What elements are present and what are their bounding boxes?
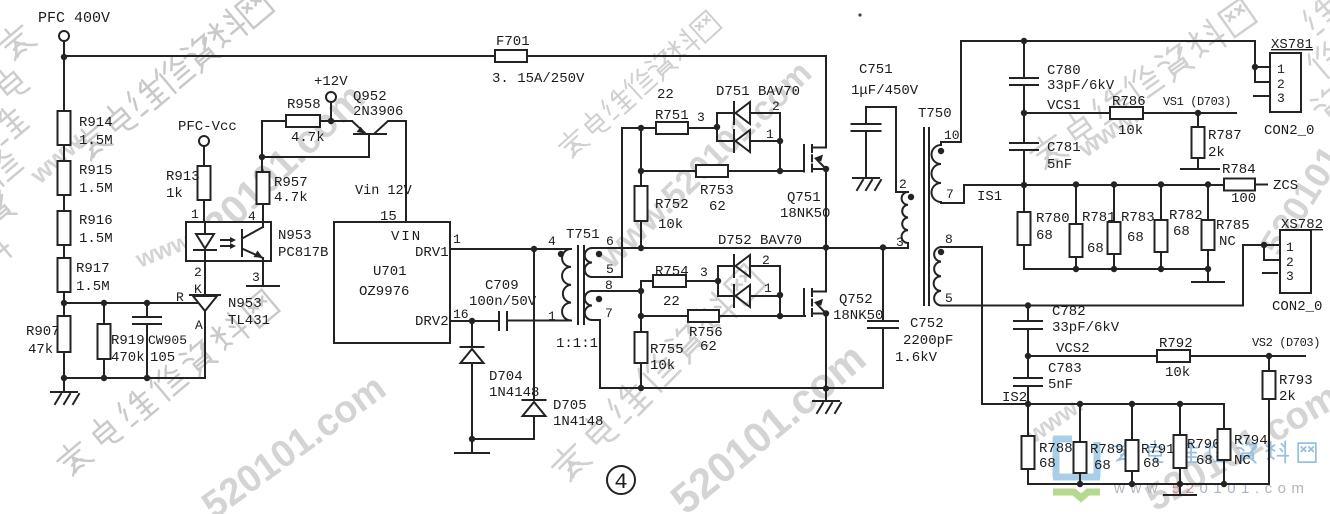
svg-text:DRV1: DRV1 <box>415 245 449 261</box>
svg-text:1: 1 <box>453 232 461 247</box>
svg-text:3: 3 <box>700 265 708 280</box>
svg-text:R755: R755 <box>650 342 684 358</box>
svg-text:33pF/6kV: 33pF/6kV <box>1052 320 1120 336</box>
svg-text:BAV70: BAV70 <box>760 233 802 249</box>
junction R789 top <box>1077 401 1083 407</box>
T750 secondary top <box>932 142 941 202</box>
svg-text:R786: R786 <box>1112 94 1146 110</box>
diode D752 upper body <box>734 255 750 277</box>
junction bus2 R785 <box>1205 266 1211 272</box>
svg-text:U701: U701 <box>373 264 407 280</box>
svg-text:3: 3 <box>1286 269 1294 284</box>
junction R753 left <box>638 168 644 174</box>
capacitor C751 plates <box>852 124 881 131</box>
T750 secondary bottom <box>934 247 941 306</box>
watermark CJK right-edge column <box>1301 0 1330 126</box>
svg-text:1: 1 <box>548 309 556 324</box>
capacitor C752 plates <box>868 321 898 328</box>
watermark CJK line center <box>547 264 766 484</box>
wire XS782 pin2 stub <box>1264 245 1280 260</box>
svg-text:5: 5 <box>606 262 614 277</box>
wire R914-R915 <box>63 145 65 161</box>
svg-text:R780: R780 <box>1036 211 1070 227</box>
junction R781 top <box>1073 181 1079 187</box>
svg-text:ZCS: ZCS <box>1273 178 1298 194</box>
svg-text:470k: 470k <box>111 350 145 366</box>
svg-text:3: 3 <box>697 110 705 125</box>
svg-text:D704: D704 <box>489 369 523 385</box>
svg-text:A: A <box>195 318 203 333</box>
svg-text:4: 4 <box>548 234 556 249</box>
svg-text:3: 3 <box>1277 91 1285 106</box>
svg-text:R752: R752 <box>655 197 689 213</box>
svg-text:C752: C752 <box>910 316 944 332</box>
resistor R790 <box>1174 404 1187 484</box>
resistor R913 <box>198 146 211 222</box>
svg-text:OZ9976: OZ9976 <box>359 284 409 300</box>
svg-text:2: 2 <box>1277 77 1285 92</box>
svg-text:2: 2 <box>772 99 780 114</box>
svg-text:R: R <box>176 290 184 305</box>
logo text CJK <box>1115 441 1316 463</box>
capacitor C783 plates <box>1014 378 1042 386</box>
wire DRV1 to T751 pin4 <box>450 248 571 250</box>
svg-text:1: 1 <box>1277 62 1285 77</box>
svg-text:1N4148: 1N4148 <box>489 385 539 401</box>
svg-text:2k: 2k <box>1279 389 1296 405</box>
junction VCS1 <box>1021 110 1027 116</box>
svg-text:1.5M: 1.5M <box>79 133 113 149</box>
wire XS781 pin3 stub <box>1254 95 1269 97</box>
resistor R754 <box>653 275 718 287</box>
junction half-bridge mid <box>823 244 829 250</box>
wire D752 lower anode <box>750 295 780 297</box>
phase dot T751 primary <box>558 251 564 257</box>
resistor R791 <box>1126 404 1139 484</box>
junction R751 left <box>638 125 644 131</box>
svg-text:XS781: XS781 <box>1271 37 1313 53</box>
svg-text:R787: R787 <box>1208 128 1242 144</box>
junction VS1 <box>1195 110 1201 116</box>
diode D705 1N4148 <box>533 249 535 400</box>
svg-text:16: 16 <box>453 307 469 322</box>
wire base <box>262 136 369 157</box>
junction gnd bus 1 <box>61 375 67 381</box>
terminal +12V <box>326 92 336 102</box>
logo book icon <box>1053 437 1100 500</box>
svg-text:PC817B: PC817B <box>278 245 328 261</box>
svg-text:IS2: IS2 <box>1002 390 1027 406</box>
svg-text:100: 100 <box>1231 191 1256 207</box>
svg-text:2k: 2k <box>1208 145 1225 161</box>
svg-text:62: 62 <box>709 199 726 215</box>
T751 core <box>578 246 584 324</box>
svg-text:105: 105 <box>150 350 175 366</box>
wire T751 pin7 down <box>592 320 883 388</box>
phase dot T750 primary <box>908 194 914 200</box>
junction bus3 R791 <box>1129 481 1135 487</box>
svg-text:1.5M: 1.5M <box>79 231 113 247</box>
svg-text:6: 6 <box>606 234 614 249</box>
junction R752 bottom <box>638 245 644 251</box>
resistor R792 <box>1157 350 1190 362</box>
transistor Q752 18NK50 <box>804 289 826 316</box>
svg-text:TL431: TL431 <box>228 313 270 329</box>
svg-text:18NK50: 18NK50 <box>780 206 830 222</box>
svg-text:68: 68 <box>1039 456 1056 472</box>
svg-text:R957: R957 <box>274 175 308 191</box>
resistor R755 <box>635 332 648 389</box>
wire IS2 bus <box>1028 404 1224 429</box>
junction D751 pin1 <box>777 138 783 144</box>
svg-text:68: 68 <box>1173 224 1190 240</box>
page number circle 4 <box>607 466 635 495</box>
svg-text:2N3906: 2N3906 <box>353 104 403 120</box>
resistor R780 <box>1018 185 1031 269</box>
resistor R782 <box>1155 185 1168 270</box>
phase dot T750 sec bottom <box>938 249 944 255</box>
svg-text:C782: C782 <box>1052 304 1086 320</box>
opto LED <box>194 222 216 261</box>
junction bus3 R790 <box>1177 481 1183 487</box>
junction VCS2 <box>1025 353 1031 359</box>
wire PFC400V terminal to bus <box>63 41 65 57</box>
svg-text:68: 68 <box>1196 453 1213 469</box>
watermark CJK line top-left <box>70 0 274 163</box>
svg-text:R790: R790 <box>1187 437 1221 453</box>
junction Q752 source <box>823 310 829 316</box>
wire R753 line <box>641 170 696 172</box>
junction R756 left <box>638 313 644 319</box>
junction D752 pin3 <box>715 278 721 284</box>
svg-text:C780: C780 <box>1047 63 1081 79</box>
svg-text:PFC 400V: PFC 400V <box>38 10 110 27</box>
resistor R907 <box>58 303 71 378</box>
svg-text:2: 2 <box>1286 255 1294 270</box>
wire Q752 drain <box>825 248 827 292</box>
svg-text:R794: R794 <box>1234 433 1268 449</box>
TL431 N953 <box>190 295 220 378</box>
capacitor C709 <box>499 312 507 330</box>
wire XS782 feed <box>1243 245 1264 306</box>
svg-text:5: 5 <box>945 291 953 306</box>
svg-text:CON2_0: CON2_0 <box>1272 299 1322 315</box>
diode D705 body <box>523 400 546 416</box>
svg-text:1k: 1k <box>166 186 183 202</box>
svg-text:3: 3 <box>252 270 260 285</box>
capacitor C780 <box>1023 41 1025 113</box>
ground clamp <box>455 439 489 453</box>
svg-text:NC: NC <box>1219 234 1236 250</box>
wire T750 pin10 to top bus <box>941 41 1255 142</box>
svg-text:2200pF: 2200pF <box>903 333 953 349</box>
svg-text:47k: 47k <box>28 342 53 358</box>
svg-text:Q751: Q751 <box>787 190 821 206</box>
svg-text:R785: R785 <box>1216 218 1250 234</box>
svg-text:DRV2: DRV2 <box>415 314 449 330</box>
diode D751 upper body <box>734 102 750 124</box>
capacitor C752 <box>882 248 884 389</box>
svg-text:68: 68 <box>1036 228 1053 244</box>
diode D752 lower <box>718 281 733 296</box>
svg-text:R782: R782 <box>1169 208 1203 224</box>
junction D751 pin3 <box>714 124 720 130</box>
svg-text:7: 7 <box>946 187 954 202</box>
wire R751-R752 link <box>640 128 642 186</box>
junction gate line 2 <box>777 313 783 319</box>
ground mid <box>813 388 841 413</box>
ground C751 <box>853 176 881 190</box>
wire XS782 pin3 stub <box>1263 272 1277 274</box>
svg-text:VS1 (D703): VS1 (D703) <box>1163 95 1231 109</box>
wire XS781 pin1 stub <box>1255 66 1270 68</box>
svg-text:1: 1 <box>1286 240 1294 255</box>
wire DRV2 to C709 <box>450 320 499 322</box>
phase dot T750 sec top <box>938 148 944 154</box>
svg-text:D752: D752 <box>718 233 752 249</box>
wire C751 to T750 pin2 <box>866 107 908 192</box>
svg-text:CW905: CW905 <box>148 333 187 348</box>
wire D704 to gnd node <box>471 363 473 439</box>
junction D705 tap <box>531 246 537 252</box>
svg-text:N953: N953 <box>278 228 312 244</box>
capacitor C781 plates <box>1010 143 1038 150</box>
svg-text:R789: R789 <box>1090 442 1124 458</box>
svg-text:C781: C781 <box>1047 140 1081 156</box>
capacitor CW905 plates <box>133 317 161 324</box>
svg-text:33pF/6kV: 33pF/6kV <box>1047 78 1115 94</box>
svg-text:68: 68 <box>1127 230 1144 246</box>
junction IS2 C783 <box>1025 401 1031 407</box>
wire VCS1 <box>1024 112 1236 114</box>
wire R957 top <box>262 168 263 172</box>
junction gate line <box>777 168 783 174</box>
wire Q751 drain <box>825 56 827 148</box>
svg-text:10k: 10k <box>1165 365 1190 381</box>
resistor R793 <box>1263 356 1276 484</box>
connector XS782 box <box>1280 230 1311 293</box>
junction pin5 C782 <box>1025 302 1031 308</box>
svg-text:R917: R917 <box>76 261 110 277</box>
svg-text:4.7k: 4.7k <box>274 190 308 206</box>
IC U701 OZ9976 box <box>334 222 450 343</box>
wire R915-R916 <box>63 195 65 211</box>
wire Q752 source down <box>825 314 827 390</box>
svg-text:4: 4 <box>614 470 627 495</box>
svg-text:1:1:1: 1:1:1 <box>556 336 598 352</box>
svg-text:62: 62 <box>700 339 717 355</box>
svg-text:68: 68 <box>1094 458 1111 474</box>
junction C780 top <box>1021 38 1027 44</box>
junction clamp gnd <box>469 436 475 442</box>
junction +12V node <box>328 118 334 124</box>
wire IS1 bottom bus <box>1024 268 1208 270</box>
junction R783 top <box>1111 181 1117 187</box>
ground opto pin3 <box>247 285 279 287</box>
junction XS781 pin1 tie <box>1252 64 1258 70</box>
svg-text:D751: D751 <box>716 84 750 100</box>
svg-text:C783: C783 <box>1048 361 1082 377</box>
scan speck <box>858 13 861 16</box>
junction R782 top <box>1158 181 1164 187</box>
svg-text:1: 1 <box>191 207 199 222</box>
wire D752 to gate line <box>779 295 781 316</box>
T751 secondary bottom <box>585 291 592 320</box>
svg-text:68: 68 <box>1143 456 1160 472</box>
svg-text:1.5M: 1.5M <box>79 181 113 197</box>
diode D752 upper <box>718 266 733 281</box>
svg-text:1μF/450V: 1μF/450V <box>851 83 919 99</box>
resistor R788 <box>1022 404 1035 484</box>
capacitor C751 <box>865 107 867 176</box>
terminal PFC 400V <box>59 31 69 41</box>
capacitor C782 <box>1027 306 1029 357</box>
capacitor CW905 <box>146 303 148 378</box>
svg-text:10k: 10k <box>1118 123 1143 139</box>
junction top bus left <box>61 54 67 60</box>
wire divider node to TL431 ref <box>64 302 197 304</box>
wire mid bus <box>592 247 908 249</box>
svg-text:5nF: 5nF <box>1047 157 1072 173</box>
svg-text:T750: T750 <box>918 106 952 122</box>
svg-text:D705: D705 <box>553 398 587 414</box>
wire bottom bus right <box>1028 483 1269 485</box>
svg-text:CON2_0: CON2_0 <box>1264 123 1314 139</box>
junction bus3 R789 <box>1077 481 1083 487</box>
svg-text:C751: C751 <box>859 62 893 78</box>
wire opto pin2 to TL431 <box>204 261 206 295</box>
opto light arrows <box>221 237 236 249</box>
svg-text:VIN: VIN <box>391 229 422 245</box>
resistor R789 <box>1074 404 1087 484</box>
junction R785 top <box>1205 181 1211 187</box>
svg-text:XS782: XS782 <box>1281 217 1323 233</box>
resistor R756 <box>688 310 805 322</box>
svg-text:1: 1 <box>766 127 774 142</box>
wire +12V down <box>330 102 332 121</box>
watermark CJK left-edge column <box>0 20 37 275</box>
watermark CJK line bottom-left <box>53 290 280 479</box>
svg-text:VS2 (D703): VS2 (D703) <box>1252 336 1320 350</box>
T750 core <box>924 128 929 305</box>
resistor R786 <box>1110 107 1143 119</box>
wire R914 chain <box>63 57 65 111</box>
svg-text:Q952: Q952 <box>353 89 387 105</box>
svg-text:+12V: +12V <box>314 74 348 90</box>
resistor R917 <box>58 258 71 292</box>
svg-text:7: 7 <box>605 306 613 321</box>
diode D751 upper <box>717 113 733 127</box>
resistor R785 <box>1202 185 1215 270</box>
svg-text:22: 22 <box>657 87 674 103</box>
svg-text:F701: F701 <box>496 34 530 50</box>
resistor R752 <box>635 186 648 248</box>
capacitor C783 <box>1027 356 1029 404</box>
diode D752 lower body <box>734 285 750 307</box>
svg-text:T751: T751 <box>566 227 600 243</box>
transistor Q751 18NK50 <box>804 145 826 172</box>
svg-text:10k: 10k <box>650 358 675 374</box>
watermark CJK line top-right <box>1026 0 1256 172</box>
svg-text:R754: R754 <box>655 264 689 280</box>
wire D751 upper anode <box>750 113 780 141</box>
svg-text:R753: R753 <box>700 183 734 199</box>
svg-text:1.5M: 1.5M <box>76 279 110 295</box>
transistor Q952 2N3906 <box>331 121 406 134</box>
svg-text:1.6kV: 1.6kV <box>895 350 938 366</box>
wire T750 pin8 to IS2 <box>941 247 1028 404</box>
T750 primary winding <box>902 192 908 248</box>
svg-text:2: 2 <box>194 265 202 280</box>
svg-text:R784: R784 <box>1222 162 1256 178</box>
junction D704 tap <box>469 318 475 324</box>
ground IS1 group <box>1192 269 1224 282</box>
svg-text:www.520101.com: www.520101.com <box>1113 480 1309 497</box>
wire D752 upper anode <box>750 266 780 294</box>
svg-text:R751: R751 <box>655 108 689 124</box>
wire T751 pin8 line <box>592 290 641 292</box>
junction divider node <box>61 300 67 306</box>
svg-text:2: 2 <box>899 177 907 192</box>
capacitor C780 plates <box>1010 78 1038 85</box>
diode D704 body <box>461 347 484 363</box>
wire R754 left link <box>641 281 653 291</box>
svg-text:68: 68 <box>1087 241 1104 257</box>
connector XS781 box <box>1270 53 1301 112</box>
junction R791 top <box>1129 401 1135 407</box>
junction gnd bus 2 <box>101 375 107 381</box>
wire D751 to gate line <box>779 141 781 171</box>
svg-text:10k: 10k <box>658 217 683 233</box>
T751 primary winding <box>562 249 571 321</box>
phase dot T751 sec bottom <box>596 296 602 302</box>
wire opto pin3 to ground <box>262 261 264 285</box>
junction R790 top <box>1177 401 1183 407</box>
resistor R957 <box>257 172 270 222</box>
resistor R751 <box>656 122 717 134</box>
watermark CJK line center-top <box>555 11 722 161</box>
junction D752 pin1 <box>777 292 783 298</box>
wire Q952 collector to VIN <box>405 121 407 222</box>
resistor R784 <box>1224 179 1267 191</box>
svg-text:22: 22 <box>663 294 680 310</box>
junction pin8 node <box>638 288 644 294</box>
wire R958 left drop <box>261 121 263 172</box>
wire gate feed top <box>622 127 656 129</box>
capacitor C782 plates <box>1014 321 1042 329</box>
junction IS1 C781 <box>1021 182 1027 188</box>
wire T751 pin5 riser <box>592 128 622 277</box>
svg-text:R919: R919 <box>111 333 145 349</box>
svg-text:R958: R958 <box>287 97 321 113</box>
svg-text:Q752: Q752 <box>839 292 873 308</box>
svg-text:Vin 12V: Vin 12V <box>355 184 413 199</box>
diode D751 lower <box>717 127 733 141</box>
svg-text:2: 2 <box>762 253 770 268</box>
resistor R914 <box>58 111 71 145</box>
svg-text:IS1: IS1 <box>977 189 1002 205</box>
junction base node <box>259 154 265 160</box>
svg-text:VCS2: VCS2 <box>1056 341 1090 357</box>
resistor R794 <box>1218 429 1231 484</box>
svg-text:BAV70: BAV70 <box>758 84 800 100</box>
junction C752 top <box>880 244 886 250</box>
junction R919 top <box>101 300 107 306</box>
junction R755 bottom <box>638 385 644 391</box>
T751 secondary top <box>585 248 592 277</box>
optocoupler N953 PC817B box <box>186 222 271 261</box>
wire pin8 node down <box>640 291 642 332</box>
